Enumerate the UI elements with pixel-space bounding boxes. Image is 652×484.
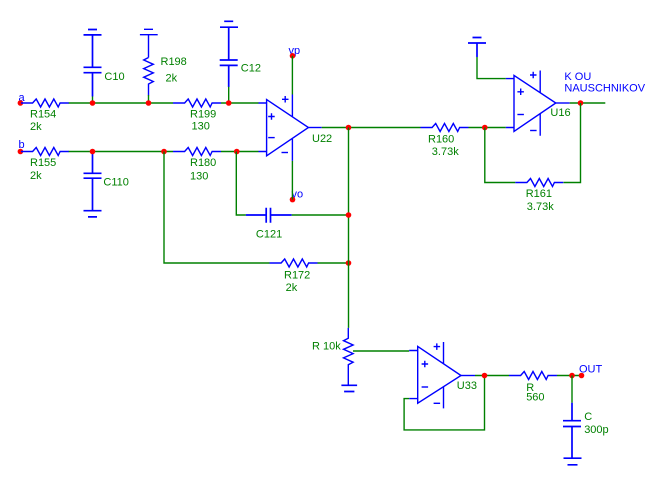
wire U33 feedback loop [404, 376, 484, 430]
node vp [289, 45, 301, 59]
svg-text:130: 130 [192, 121, 210, 133]
svg-text:R155: R155 [30, 157, 56, 169]
wire R199 to opamp [221, 102, 259, 104]
capacitor C121 [236, 152, 348, 241]
node OUT [579, 363, 603, 378]
ground for C 300p [564, 458, 582, 465]
svg-text:U22: U22 [312, 133, 332, 145]
wire feedback down-right to R172 [164, 152, 270, 264]
svg-text:U33: U33 [457, 380, 477, 392]
capacitor C 300p [563, 376, 609, 459]
node: junction R160/U16 feedback [482, 125, 488, 131]
resistor R161 [515, 179, 563, 213]
resistor R 10k [312, 328, 353, 385]
node: junction R198/a-line [146, 100, 152, 106]
svg-text:R161: R161 [526, 188, 552, 200]
node: U33 output junction [482, 373, 488, 379]
svg-text:R154: R154 [30, 108, 56, 120]
node a [18, 92, 26, 106]
op-amp U16 [506, 71, 571, 136]
wire a-line left [69, 102, 173, 104]
svg-text:U16: U16 [550, 107, 570, 119]
node: feedback tap junction [161, 149, 167, 155]
svg-text:2k: 2k [30, 121, 42, 133]
wire R160 to U16 [469, 127, 506, 129]
wire R10k tap to U33 [353, 350, 409, 352]
resistor R 560 [509, 372, 557, 404]
wire vp to U22 [291, 56, 293, 95]
node: junction C12/a-line [226, 100, 232, 106]
node K OU NAUSCHNIKOV label [564, 71, 645, 94]
wire R172 to main vertical [318, 262, 349, 264]
svg-text:3.73k: 3.73k [527, 201, 554, 213]
svg-text:300p: 300p [584, 424, 608, 436]
svg-text:R160: R160 [428, 134, 454, 146]
svg-text:3.73k: 3.73k [432, 146, 459, 158]
svg-text:R 10k: R 10k [312, 341, 341, 353]
wire R560 to OUT [557, 375, 582, 377]
resistor R199 [173, 99, 221, 133]
svg-text:C10: C10 [104, 71, 124, 83]
wire main vertical [348, 128, 350, 328]
resistor R180 [173, 148, 221, 183]
resistor R155 [21, 148, 69, 182]
svg-text:C121: C121 [256, 229, 282, 241]
svg-text:2k: 2k [30, 170, 42, 182]
ground for R 10k [341, 385, 357, 391]
node b [18, 139, 25, 154]
svg-text:NAUSCHNIKOV: NAUSCHNIKOV [564, 82, 645, 94]
ground for U16 + input [468, 38, 506, 79]
svg-text:2k: 2k [286, 282, 298, 294]
wire vo to U22 [291, 161, 293, 200]
svg-text:2k: 2k [166, 73, 178, 85]
wire U22 output to junction [322, 127, 421, 129]
node: junction R180 out [234, 149, 240, 155]
node: junction R172/main vertical [346, 260, 352, 266]
svg-text:R180: R180 [190, 157, 216, 169]
svg-text:R198: R198 [161, 56, 187, 68]
resistor R154 [21, 99, 69, 133]
resistor R198 [140, 29, 187, 103]
svg-text:K OU: K OU [564, 71, 591, 83]
wire U22 out to R160 done above; resistor R160 [421, 124, 469, 159]
resistor R172 [270, 259, 318, 294]
op-amp U33 [409, 342, 477, 408]
svg-text:R199: R199 [190, 108, 216, 120]
wire U33 output [475, 375, 509, 377]
svg-text:C110: C110 [103, 177, 128, 189]
node: junction C110/b-line [90, 149, 96, 155]
node: junction U22 output [346, 125, 352, 131]
wire b-line left [69, 151, 173, 153]
wire U16 output [570, 102, 606, 104]
op-amp U22 [259, 95, 333, 161]
node: junction C10/a-line [90, 100, 96, 106]
wire R180 to opamp [221, 151, 259, 153]
svg-text:R172: R172 [284, 270, 310, 282]
node: U16 output junction [578, 100, 584, 106]
svg-text:C12: C12 [241, 62, 261, 74]
capacitor C110 [84, 152, 129, 217]
svg-text:560: 560 [526, 392, 544, 404]
wire U16 feedback loop [485, 103, 581, 183]
node vo [290, 189, 303, 203]
svg-text:130: 130 [190, 171, 208, 183]
node: junction R560/C [569, 373, 575, 379]
capacitor C10 [84, 30, 125, 104]
capacitor C12 [220, 21, 261, 103]
svg-text:C: C [584, 411, 592, 423]
node: junction C121/main vertical [346, 212, 352, 218]
